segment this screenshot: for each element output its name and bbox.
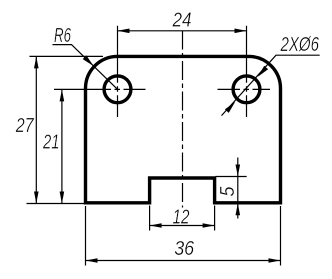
- svg-text:12: 12: [173, 207, 190, 229]
- svg-text:36: 36: [174, 238, 195, 260]
- svg-text:27: 27: [15, 115, 34, 137]
- svg-text:21: 21: [42, 132, 59, 154]
- svg-text:24: 24: [172, 10, 192, 32]
- svg-text:2XØ6: 2XØ6: [280, 34, 320, 56]
- svg-text:R6: R6: [54, 25, 71, 47]
- svg-text:5: 5: [217, 186, 239, 197]
